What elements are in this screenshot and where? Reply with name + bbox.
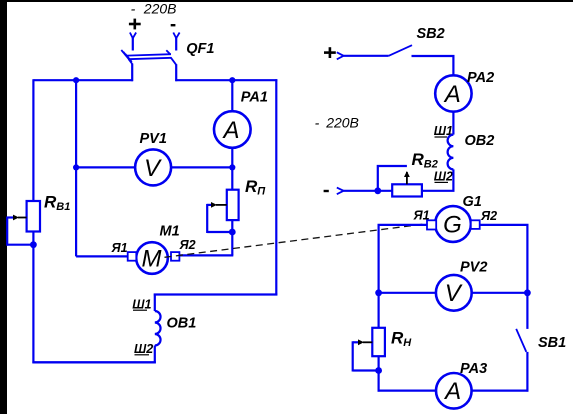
switch SB2 — [389, 45, 412, 56]
wire: G1 left lead and left riser — [379, 225, 427, 293]
svg-text:Я1: Я1 — [111, 241, 128, 255]
svg-text:PV2: PV2 — [460, 260, 487, 276]
wire: PA1 top lead — [231, 80, 233, 111]
terminal - (excitation supply) — [324, 188, 344, 195]
wire: Rn bottom to corner — [378, 356, 380, 391]
rheostat Rв2 — [378, 166, 422, 197]
wire: SB1 to bottom corner — [526, 352, 528, 392]
wire: OB2 down to Rb2 level — [422, 169, 454, 190]
terminal + (excitation supply) — [324, 47, 344, 59]
junction: Rn wiper tie — [375, 367, 382, 374]
svg-text:V: V — [144, 155, 162, 182]
wire: plus terminal to SB2 — [344, 55, 389, 57]
svg-text:PV1: PV1 — [140, 131, 167, 147]
voltmeter PV1 — [135, 149, 171, 185]
svg-text:PA2: PA2 — [467, 70, 494, 86]
svg-text:М1: М1 — [160, 223, 180, 239]
terminal + (left supply) — [129, 19, 141, 51]
svg-text:ОВ2: ОВ2 — [465, 133, 495, 149]
label: -220V supply (motor circuit) — [131, 1, 177, 17]
svg-text:PA3: PA3 — [460, 361, 487, 377]
wire: Rp bottom lead — [231, 220, 233, 232]
wire: inner-left vertical (bus to M1) — [75, 80, 77, 256]
svg-text:-: - — [131, 1, 136, 17]
junction: PV2 right node — [524, 289, 531, 296]
junction: PV1 / PA1 / Rp node — [229, 164, 235, 170]
svg-text:ОВ1: ОВ1 — [167, 316, 197, 332]
svg-text:SB2: SB2 — [417, 26, 445, 42]
wire: QF1 left pole to bus — [131, 64, 133, 82]
junction: Rp wiper tie — [229, 229, 236, 236]
svg-text:QF1: QF1 — [186, 41, 214, 57]
pin Я2 (M1 right terminal) — [171, 252, 179, 261]
wire: PV2 right lead — [472, 292, 528, 294]
ammeter PA3 — [436, 373, 472, 409]
wire: PV2 left lead — [379, 292, 436, 294]
svg-text:Ш2: Ш2 — [434, 170, 453, 184]
svg-text:Я2: Я2 — [179, 238, 196, 252]
junction: bus / PA1 branch — [229, 77, 235, 83]
pin Я1 (M1 left terminal) — [128, 252, 137, 261]
wire: right bus horizontal — [175, 79, 277, 81]
ammeter PA1 — [214, 111, 251, 148]
wire: left outer vertical to Rb1 — [32, 79, 34, 201]
wire: PV1 right lead — [171, 166, 232, 168]
svg-text:A: A — [443, 81, 461, 108]
svg-text:М: М — [142, 246, 162, 273]
rheostat Rн — [353, 328, 385, 372]
wire: bottom horizontal (left circuit) — [32, 361, 155, 363]
wire: Ya2 horizontal — [179, 254, 233, 256]
wire: OB1 bottom lead — [154, 346, 156, 364]
pin Я2 (G1 right terminal) — [471, 220, 480, 229]
svg-text:220В: 220В — [325, 115, 359, 131]
svg-text:PA1: PA1 — [241, 89, 268, 105]
field winding ОВ1 — [155, 311, 161, 346]
wire: PA1 bottom lead — [231, 148, 233, 168]
svg-text:V: V — [445, 280, 463, 307]
svg-text:G: G — [443, 212, 462, 239]
junction: PV1 branch tap — [73, 164, 79, 170]
wire: right riser to SB1 — [526, 292, 528, 329]
wire: horizontal OB1 to right riser — [154, 293, 277, 295]
svg-text:A: A — [443, 378, 461, 405]
mechanical coupling M1-G1 (dashed) — [165, 223, 431, 257]
label: -220V supply (excitation circuit) — [315, 115, 359, 131]
svg-text:Ш2: Ш2 — [134, 342, 153, 356]
motor M1 — [136, 242, 168, 274]
wire: M1 left lead — [76, 255, 128, 257]
wire: left bus horizontal — [33, 79, 133, 81]
ammeter PA2 — [435, 75, 471, 111]
svg-text:Я2: Я2 — [480, 209, 497, 223]
generator G1 — [435, 206, 471, 242]
junction: PV2 left node — [375, 289, 382, 296]
svg-text:A: A — [221, 117, 239, 144]
rheostat Rп — [207, 190, 238, 233]
wire: Rp top lead — [231, 167, 233, 189]
switch SB1 — [516, 329, 526, 352]
wire: left riser PV2 to Rn — [378, 293, 380, 328]
terminal - (left supply) — [171, 25, 180, 50]
voltmeter PV2 — [436, 275, 472, 311]
field winding ОВ2 — [448, 135, 454, 170]
wire: minus terminal to Rb2 — [344, 190, 393, 192]
wire: PV1 left lead — [76, 166, 135, 168]
pin Я1 (G1 left terminal) — [427, 220, 436, 229]
junction: bus / Rb1 branch — [73, 77, 79, 83]
wire: PA2 to OB2 — [452, 112, 454, 135]
wire: G1 right lead and right riser — [480, 225, 528, 293]
wire: QF1 right pole to bus — [175, 64, 177, 81]
junction: Rb1 wiper tie — [30, 241, 37, 248]
svg-text:Я1: Я1 — [413, 208, 430, 222]
svg-text:Ш1: Ш1 — [132, 297, 151, 311]
wire: Rp to Ya2 drop — [231, 232, 233, 255]
wire: PA3 left lead — [378, 390, 436, 392]
wire: OB1 top lead — [154, 294, 156, 312]
svg-text:SB1: SB1 — [538, 335, 566, 351]
rheostat Rв1 — [7, 201, 40, 246]
svg-text:G1: G1 — [463, 194, 482, 210]
circuit breaker QF1 — [121, 50, 176, 65]
svg-text:-: - — [315, 115, 320, 131]
wire: right outer vertical riser — [275, 79, 277, 295]
wire: Rb1 bottom to lower-left corner — [32, 232, 34, 364]
wire: SB2 to PA2 corner — [412, 56, 454, 75]
wire: PA3 right lead — [472, 390, 529, 392]
junction: Rb2 wiper tie — [374, 187, 381, 194]
svg-text:220В: 220В — [143, 1, 177, 17]
